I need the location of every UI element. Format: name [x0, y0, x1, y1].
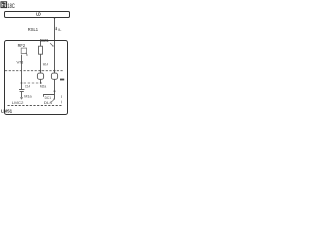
svg-text:M1a: M1a: [24, 94, 32, 99]
capacitor node dot: [21, 82, 23, 84]
svg-text:LD: LD: [36, 12, 41, 17]
wire: bar to node, net RSL1: [54, 18, 56, 74]
dashed boundary top: [5, 70, 64, 72]
wire: DSW1 down to M2a: [40, 54, 42, 73]
leader curve from wire to DL4: [50, 98, 54, 102]
module box LMS1: [5, 41, 68, 115]
resistor RF2: [21, 48, 26, 53]
figure label 图18C: [1, 2, 15, 10]
svg-text:LMC2: LMC2: [12, 100, 24, 105]
arrow leader to wire: [50, 43, 53, 46]
node dot below M2a: [40, 82, 42, 84]
junction dot on dashed line (right): [54, 70, 56, 72]
svg-text:RF2: RF2: [18, 43, 26, 48]
junction dot at bar: [54, 18, 55, 19]
dashed coupling y83: [24, 82, 40, 84]
junction dot right branch: [54, 90, 56, 92]
bus bar LD (top): [5, 12, 70, 18]
switch DSW1: [39, 46, 43, 54]
svg-text:DL4: DL4: [44, 100, 53, 105]
svg-text:C14: C14: [25, 84, 31, 89]
plate mark right of M2b: [60, 79, 64, 81]
capacitor C14 plates: [19, 89, 24, 91]
svg-text:M2a: M2a: [40, 83, 47, 88]
current label IL with down arrow: [55, 27, 62, 32]
svg-text:DSW1: DSW1: [40, 38, 49, 43]
svg-text:RSL1: RSL1: [28, 27, 39, 32]
junction dot on dashed line (mid): [40, 70, 42, 72]
wire: node DC1 horizontal: [44, 95, 55, 97]
transistor M2a: [37, 73, 43, 79]
transistor M2b: [51, 73, 57, 79]
dashed boundary bottom: [8, 105, 63, 107]
svg-text:WL4: WL4: [43, 62, 49, 67]
wire: RF2 to C14, node Vfd: [21, 55, 23, 90]
wire: box top to DSW1: [40, 41, 42, 47]
dashed right edge bits: [61, 95, 63, 103]
arrowhead end of left branch: [20, 97, 23, 100]
svg-text:Vfd: Vfd: [16, 59, 23, 64]
svg-text:LMS1: LMS1: [1, 108, 12, 113]
svg-text:18C: 18C: [7, 3, 15, 10]
